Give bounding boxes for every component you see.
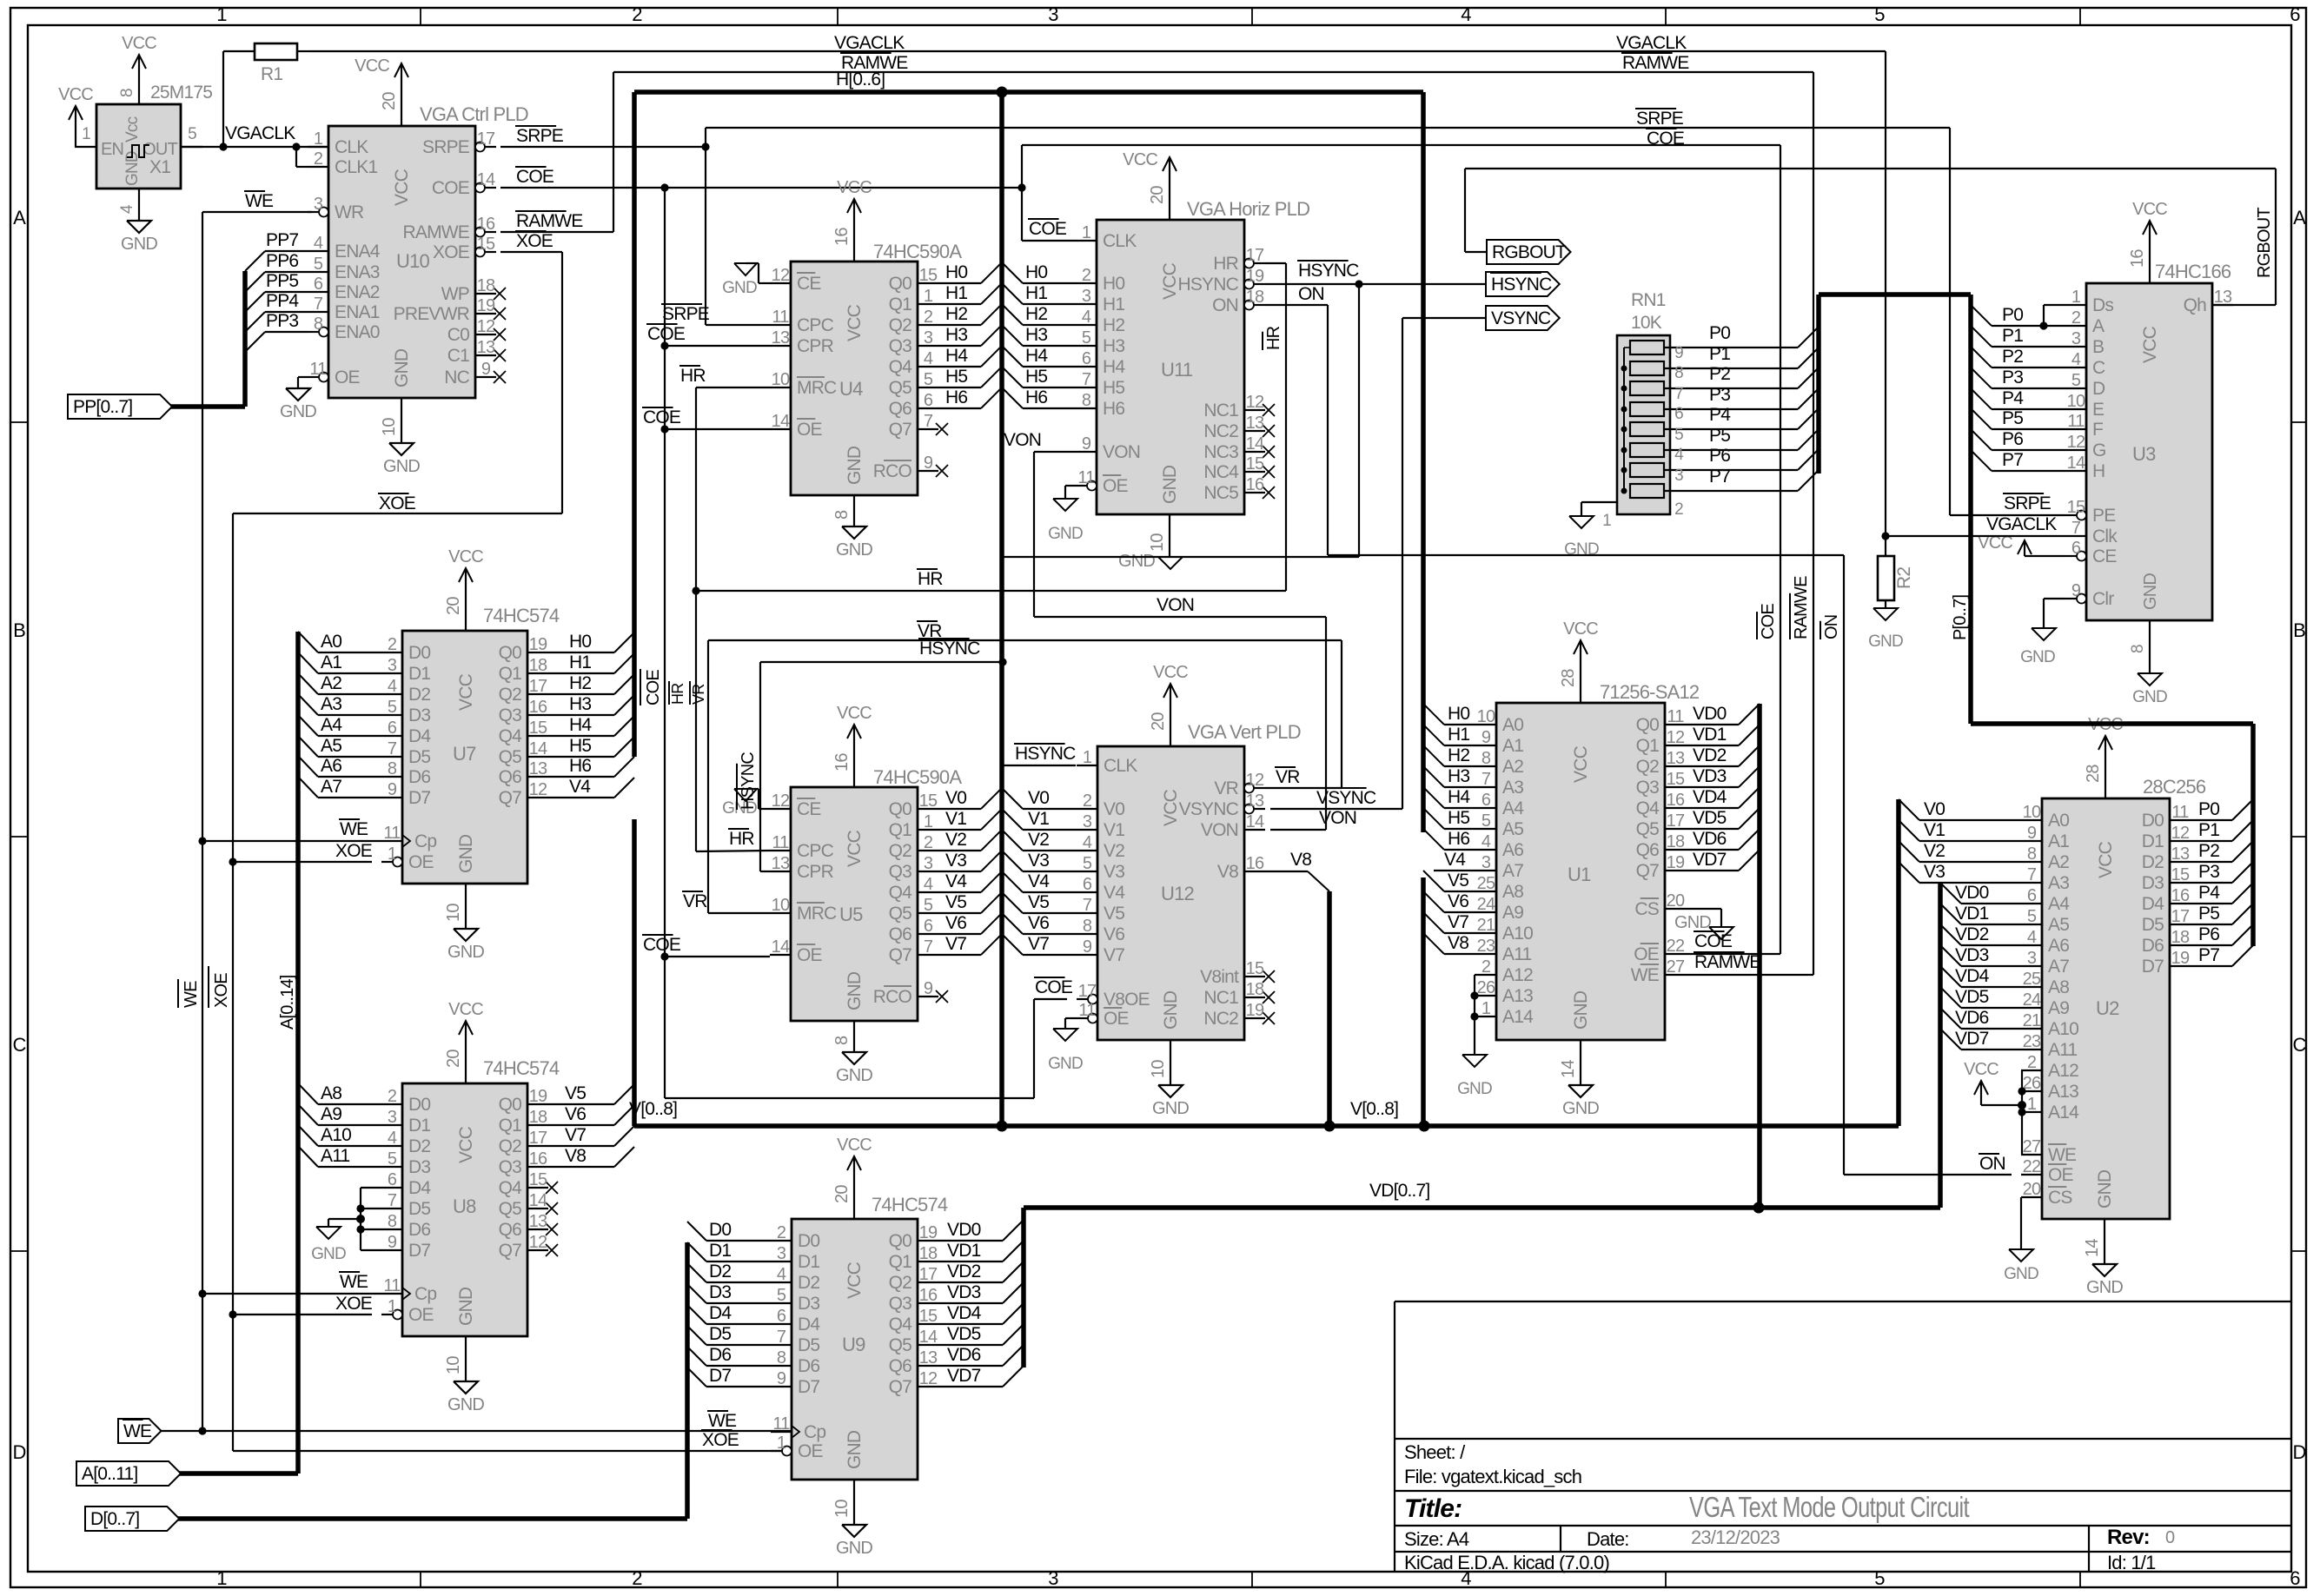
- svg-text:COE: COE: [1035, 977, 1073, 997]
- svg-text:Q2: Q2: [889, 1273, 912, 1293]
- svg-text:Q1: Q1: [889, 1252, 912, 1272]
- VON horizontal y710: [1034, 616, 1326, 618]
- svg-text:SRPE: SRPE: [422, 137, 470, 157]
- svg-text:2: 2: [777, 1223, 786, 1242]
- svg-text:17: 17: [477, 129, 495, 149]
- svg-text:P5: P5: [2198, 904, 2219, 924]
- svg-text:Q3: Q3: [499, 705, 522, 725]
- svg-text:8: 8: [777, 1348, 786, 1368]
- svg-text:25M175: 25M175: [150, 83, 212, 103]
- U3 GND pin 8 bottom: [2149, 620, 2151, 673]
- svg-text:74HC590A: 74HC590A: [873, 241, 962, 262]
- svg-text:ON: ON: [1212, 295, 1238, 315]
- svg-text:7: 7: [1082, 370, 1091, 389]
- svg-text:U10: U10: [396, 250, 430, 272]
- svg-text:D2: D2: [408, 1136, 430, 1156]
- svg-text:16: 16: [477, 215, 495, 234]
- svg-text:H1: H1: [569, 652, 591, 672]
- svg-text:XOE: XOE: [335, 1294, 373, 1314]
- svg-text:A11: A11: [2048, 1040, 2078, 1060]
- svg-text:V[0..8]: V[0..8]: [1350, 1099, 1398, 1119]
- svg-text:A2: A2: [321, 673, 341, 693]
- svg-text:D3: D3: [2142, 873, 2164, 893]
- svg-text:HSYNC: HSYNC: [739, 752, 758, 810]
- svg-text:V1: V1: [945, 809, 966, 829]
- COE vertical branch left side: [664, 188, 666, 1098]
- svg-text:4: 4: [2071, 350, 2081, 369]
- resistor network RN1 10K: [1617, 335, 1670, 514]
- svg-text:H4: H4: [1448, 787, 1470, 807]
- WE branch to U7 Cp: [202, 840, 381, 842]
- svg-text:CPR: CPR: [797, 862, 834, 882]
- svg-text:D7: D7: [408, 1241, 430, 1261]
- svg-text:Title:: Title:: [1404, 1494, 1462, 1523]
- svg-text:XOE: XOE: [433, 242, 470, 262]
- svg-text:CLK1: CLK1: [335, 157, 377, 177]
- svg-text:VD2: VD2: [947, 1262, 981, 1281]
- svg-text:V3: V3: [1924, 862, 1945, 882]
- svg-text:11: 11: [772, 833, 789, 852]
- svg-text:A13: A13: [2048, 1082, 2078, 1102]
- svg-text:25: 25: [1477, 874, 1495, 893]
- D bus entries to U9 inputs: [687, 1222, 706, 1241]
- svg-text:16: 16: [1246, 854, 1264, 873]
- svg-text:VD2: VD2: [1693, 745, 1727, 765]
- svg-text:Q3: Q3: [499, 1157, 522, 1177]
- svg-text:H0: H0: [569, 632, 591, 652]
- svg-text:V3: V3: [1028, 851, 1049, 871]
- svg-text:6: 6: [1083, 875, 1092, 894]
- IC U11 VGA Horiz PLD: [1097, 220, 1244, 514]
- svg-text:3: 3: [388, 1108, 397, 1127]
- svg-text:GND: GND: [456, 1287, 476, 1326]
- svg-text:D6: D6: [709, 1345, 731, 1365]
- svg-text:D0: D0: [709, 1220, 731, 1240]
- svg-text:2: 2: [632, 3, 642, 25]
- svg-text:3: 3: [1048, 1567, 1058, 1589]
- svg-text:P0: P0: [1709, 323, 1730, 343]
- svg-text:Size: A4: Size: A4: [1404, 1528, 1469, 1550]
- svg-text:U4: U4: [839, 378, 863, 400]
- svg-text:WE: WE: [245, 191, 274, 211]
- svg-text:HSYNC: HSYNC: [1015, 744, 1076, 764]
- svg-text:VD5: VD5: [1955, 987, 1989, 1007]
- svg-text:3: 3: [777, 1244, 786, 1263]
- D[0..7] horizontal bus to label: [162, 1516, 687, 1521]
- svg-text:D4: D4: [798, 1315, 820, 1334]
- svg-text:GND: GND: [1457, 1080, 1492, 1098]
- svg-text:VON: VON: [1201, 820, 1238, 840]
- svg-text:VCC: VCC: [58, 85, 93, 104]
- svg-text:V4: V4: [1444, 850, 1466, 870]
- svg-text:U2: U2: [2096, 997, 2119, 1019]
- svg-text:D1: D1: [408, 1116, 430, 1136]
- svg-text:5: 5: [1874, 3, 1885, 25]
- svg-text:17: 17: [2171, 907, 2190, 926]
- svg-text:RAMWE: RAMWE: [403, 222, 470, 242]
- row ticks left/right: [10, 421, 28, 423]
- svg-text:15: 15: [2171, 865, 2190, 884]
- svg-text:X1: X1: [149, 157, 170, 177]
- svg-text:B: B: [13, 619, 25, 641]
- svg-text:H0: H0: [1025, 262, 1047, 282]
- svg-text:RAMWE: RAMWE: [516, 211, 583, 231]
- svg-text:U3: U3: [2132, 443, 2156, 465]
- IC U7 74HC574: [402, 631, 527, 884]
- svg-text:A14: A14: [1502, 1007, 1534, 1027]
- svg-text:18: 18: [919, 1244, 938, 1263]
- svg-text:13: 13: [2171, 844, 2190, 864]
- svg-text:A0: A0: [1502, 715, 1523, 735]
- svg-text:17: 17: [529, 1129, 547, 1148]
- svg-text:16: 16: [2171, 886, 2190, 905]
- svg-text:P7: P7: [2002, 450, 2023, 470]
- svg-text:12: 12: [772, 791, 790, 811]
- svg-text:9: 9: [924, 454, 933, 473]
- svg-text:VR: VR: [1214, 778, 1238, 798]
- svg-text:VCC: VCC: [837, 704, 872, 723]
- svg-text:CLK: CLK: [1103, 231, 1137, 251]
- svg-text:7: 7: [1481, 770, 1491, 789]
- svg-text:A5: A5: [2048, 915, 2069, 935]
- bus vertical x1153: [999, 92, 1004, 1126]
- svg-text:1: 1: [924, 812, 933, 831]
- svg-text:H5: H5: [1025, 367, 1047, 387]
- svg-text:3: 3: [924, 854, 933, 873]
- svg-text:VON: VON: [1157, 595, 1194, 615]
- svg-text:RGBOUT: RGBOUT: [2255, 208, 2274, 278]
- svg-text:8: 8: [832, 1036, 852, 1045]
- svg-text:13: 13: [1246, 414, 1264, 433]
- svg-text:14: 14: [772, 412, 790, 431]
- U8 D4-D7 tied to ground: [361, 1187, 381, 1189]
- svg-text:A9: A9: [2048, 998, 2069, 1018]
- svg-text:V7: V7: [945, 934, 966, 954]
- svg-text:19: 19: [1246, 267, 1264, 286]
- svg-text:V6: V6: [1104, 924, 1124, 944]
- svg-text:V4: V4: [945, 871, 967, 891]
- U2 outputs P0-P7 entries into bus x2593: [2191, 819, 2232, 821]
- svg-text:H1: H1: [945, 283, 967, 303]
- svg-text:23/12/2023: 23/12/2023: [1691, 1526, 1780, 1548]
- svg-text:19: 19: [529, 1087, 547, 1106]
- svg-text:Q7: Q7: [499, 1241, 522, 1261]
- IC U10 VGA Ctrl PLD: [328, 126, 475, 398]
- svg-text:P[0..7]: P[0..7]: [1951, 595, 1970, 640]
- SRPE wire into U4 CPC: [706, 324, 770, 326]
- svg-text:Q4: Q4: [499, 726, 523, 746]
- svg-text:CLK: CLK: [1104, 756, 1137, 776]
- svg-text:P7: P7: [2198, 945, 2219, 965]
- svg-text:12: 12: [1667, 728, 1685, 747]
- U9 outputs VD0-VD7 wires entries into bus x1178: [938, 1240, 1003, 1242]
- svg-text:D2: D2: [408, 685, 430, 705]
- svg-text:F: F: [2092, 420, 2103, 440]
- svg-text:P0: P0: [2198, 799, 2219, 819]
- svg-text:VD7: VD7: [1955, 1029, 1989, 1049]
- svg-text:1: 1: [2071, 288, 2081, 307]
- svg-text:GND: GND: [845, 446, 865, 485]
- svg-text:18: 18: [1667, 832, 1685, 851]
- svg-text:File: vgatext.kicad_sch: File: vgatext.kicad_sch: [1404, 1466, 1581, 1487]
- svg-text:1: 1: [2027, 1095, 2037, 1114]
- svg-text:4: 4: [314, 234, 323, 253]
- svg-text:Ds: Ds: [2092, 295, 2113, 315]
- svg-text:V8: V8: [1290, 850, 1311, 870]
- svg-text:V0: V0: [1104, 799, 1124, 819]
- IC U8 74HC574: [402, 1083, 527, 1336]
- V bus vertical x2185: [1896, 799, 1901, 1126]
- svg-text:Q0: Q0: [889, 274, 912, 294]
- svg-text:D0: D0: [2142, 811, 2164, 831]
- svg-text:23: 23: [1477, 937, 1495, 956]
- RN1 pin1 to ground: [1581, 501, 1617, 503]
- svg-text:Q0: Q0: [1636, 715, 1660, 735]
- svg-text:A6: A6: [1502, 840, 1523, 860]
- COE branch to U4 OE: [665, 428, 770, 430]
- svg-text:Q5: Q5: [889, 904, 912, 924]
- svg-text:14: 14: [529, 1191, 547, 1210]
- bus vertical x730 upper: [632, 92, 637, 757]
- X1 pin 5 OUT: [181, 146, 202, 148]
- svg-text:19: 19: [1246, 1001, 1264, 1020]
- U1 CS to ground: [1686, 908, 1721, 910]
- svg-text:5: 5: [1874, 1567, 1885, 1589]
- X1 pin 1 VCC symbol: [75, 106, 76, 147]
- svg-text:9: 9: [2027, 824, 2037, 843]
- svg-text:D3: D3: [709, 1282, 731, 1302]
- svg-text:P2: P2: [2198, 841, 2219, 861]
- svg-text:V5: V5: [565, 1083, 586, 1103]
- svg-text:WE: WE: [182, 981, 201, 1008]
- svg-text:D5: D5: [2142, 915, 2164, 935]
- svg-text:9: 9: [1082, 434, 1091, 454]
- svg-text:10: 10: [2067, 392, 2085, 411]
- svg-text:D4: D4: [2142, 894, 2164, 914]
- svg-text:6: 6: [1481, 791, 1491, 810]
- svg-text:H5: H5: [569, 736, 591, 756]
- svg-text:7: 7: [314, 295, 323, 314]
- svg-text:P5: P5: [1709, 426, 1730, 446]
- svg-text:VD4: VD4: [1955, 966, 1990, 986]
- svg-text:WE: WE: [340, 1272, 368, 1292]
- svg-text:12: 12: [919, 1369, 938, 1388]
- svg-text:10: 10: [772, 896, 790, 915]
- svg-text:P7: P7: [1709, 467, 1730, 487]
- svg-text:V4: V4: [1104, 883, 1125, 903]
- svg-text:Q7: Q7: [499, 788, 522, 808]
- svg-text:GND: GND: [1674, 913, 1711, 932]
- IC U4 74HC590A: [791, 262, 918, 495]
- svg-text:11: 11: [2171, 803, 2189, 822]
- IC U1 71256-SA12: [1496, 703, 1665, 1040]
- svg-text:14: 14: [919, 1328, 938, 1347]
- svg-text:COE: COE: [647, 324, 686, 344]
- svg-text:COE: COE: [516, 167, 554, 187]
- svg-text:VD0: VD0: [1693, 704, 1727, 724]
- svg-text:12: 12: [529, 1233, 547, 1252]
- SRPE run: [500, 146, 706, 148]
- svg-text:P3: P3: [2198, 862, 2219, 882]
- svg-text:4: 4: [2027, 928, 2037, 947]
- svg-text:Q5: Q5: [889, 1335, 912, 1355]
- svg-text:V8OE: V8OE: [1104, 990, 1150, 1010]
- svg-text:H6: H6: [1448, 829, 1469, 849]
- svg-text:H6: H6: [569, 756, 591, 776]
- svg-text:VD1: VD1: [947, 1241, 981, 1261]
- svg-text:5: 5: [1674, 426, 1683, 444]
- svg-text:PREVWR: PREVWR: [394, 304, 470, 324]
- global label A[0..11]: [76, 1461, 181, 1486]
- svg-text:V8int: V8int: [1200, 967, 1239, 987]
- VGACLK top horizontal run: [309, 50, 1886, 52]
- svg-text:VR: VR: [683, 891, 707, 911]
- svg-text:7: 7: [2027, 865, 2037, 884]
- svg-text:VCC: VCC: [1160, 262, 1180, 300]
- global label PP[0..7]: [68, 394, 172, 419]
- svg-text:24: 24: [1477, 895, 1495, 914]
- svg-text:19: 19: [2171, 949, 2190, 968]
- svg-text:D7: D7: [798, 1377, 819, 1397]
- svg-text:VCC: VCC: [837, 1136, 872, 1155]
- svg-text:5: 5: [777, 1286, 786, 1305]
- svg-text:D0: D0: [408, 643, 430, 663]
- svg-text:H6: H6: [945, 387, 967, 407]
- svg-text:P2: P2: [2002, 347, 2023, 367]
- svg-text:11: 11: [2067, 412, 2085, 431]
- U3 CE tie to VCC: [2025, 555, 2065, 557]
- HR vertical x801: [695, 387, 697, 851]
- svg-text:11: 11: [383, 1276, 401, 1295]
- svg-text:VON: VON: [1004, 430, 1041, 450]
- svg-text:V3: V3: [1104, 862, 1124, 882]
- svg-text:11: 11: [309, 360, 327, 379]
- VSYNC net from U12 pin13: [1270, 808, 1402, 810]
- svg-text:A13: A13: [1502, 986, 1533, 1006]
- svg-text:18: 18: [477, 276, 495, 295]
- svg-text:8: 8: [388, 759, 397, 778]
- svg-text:WE: WE: [123, 1421, 152, 1441]
- svg-text:VD5: VD5: [947, 1324, 981, 1344]
- svg-text:18: 18: [529, 656, 547, 675]
- U12 V8 output wire diagonal into bus x1530: [1265, 871, 1308, 872]
- svg-text:6: 6: [2027, 886, 2037, 905]
- svg-text:14: 14: [1246, 812, 1264, 831]
- svg-text:V8: V8: [1217, 862, 1238, 882]
- svg-text:Q4: Q4: [1636, 798, 1660, 818]
- svg-text:GND: GND: [722, 279, 757, 297]
- svg-text:10: 10: [1477, 707, 1495, 726]
- svg-text:VD6: VD6: [947, 1345, 981, 1365]
- VD bus vertical x1178: [1021, 1208, 1026, 1368]
- svg-text:MRC: MRC: [797, 378, 837, 398]
- svg-text:3: 3: [1048, 3, 1058, 25]
- svg-text:VD4: VD4: [947, 1303, 982, 1323]
- VR net from U12 pin12: [1265, 787, 1342, 789]
- WE vertical from U10 WR: [202, 211, 312, 213]
- svg-text:V5: V5: [1448, 871, 1468, 891]
- svg-text:Date:: Date:: [1587, 1528, 1629, 1550]
- svg-text:13: 13: [477, 338, 495, 357]
- svg-text:XOE: XOE: [516, 231, 553, 251]
- VR vertical x815: [707, 640, 709, 913]
- svg-text:10K: 10K: [1631, 313, 1662, 333]
- ground at U10 OE pin: [298, 376, 308, 378]
- svg-text:C1: C1: [447, 346, 469, 366]
- svg-text:WE: WE: [340, 819, 368, 839]
- svg-text:VD7: VD7: [1693, 850, 1727, 870]
- svg-text:WR: WR: [335, 202, 364, 222]
- svg-text:Q5: Q5: [499, 747, 522, 767]
- U7 outputs H0-H6 V4 wires entries into bus x730: [548, 652, 614, 653]
- svg-text:P1: P1: [1709, 344, 1730, 364]
- svg-text:2: 2: [924, 308, 933, 327]
- WE global label bottom left: [118, 1419, 162, 1443]
- svg-text:V7: V7: [1448, 912, 1468, 932]
- resistor R1: [255, 43, 297, 60]
- svg-text:15: 15: [919, 266, 938, 285]
- svg-text:15: 15: [529, 1170, 547, 1189]
- bus H[0..6] horizontal top: [634, 89, 1423, 95]
- svg-text:CLK: CLK: [335, 137, 368, 157]
- svg-text:NC4: NC4: [1203, 462, 1239, 482]
- svg-text:U12: U12: [1161, 883, 1195, 904]
- svg-text:D6: D6: [408, 767, 430, 787]
- svg-text:Q6: Q6: [889, 399, 912, 419]
- svg-text:8: 8: [118, 89, 136, 97]
- svg-text:V7: V7: [1028, 934, 1049, 954]
- svg-text:MRC: MRC: [797, 904, 837, 924]
- svg-text:P6: P6: [2198, 924, 2219, 944]
- svg-text:GND: GND: [1118, 552, 1155, 571]
- svg-text:A[0..14]: A[0..14]: [278, 975, 297, 1030]
- bus V[0..8] horizontal: [634, 1123, 1899, 1129]
- U3 P0-P7 inputs entries from bus x2268: [1971, 305, 1992, 326]
- svg-text:19: 19: [529, 635, 547, 654]
- svg-text:Q1: Q1: [1636, 736, 1660, 756]
- svg-text:V1: V1: [1924, 820, 1945, 840]
- svg-text:5: 5: [924, 370, 933, 389]
- svg-text:A7: A7: [1502, 861, 1523, 881]
- svg-text:2: 2: [388, 635, 397, 654]
- svg-text:VCC: VCC: [456, 673, 476, 711]
- svg-text:GND: GND: [845, 971, 865, 1010]
- svg-text:1: 1: [1481, 999, 1491, 1018]
- svg-text:D1: D1: [709, 1241, 731, 1261]
- svg-text:VGACLK: VGACLK: [225, 123, 295, 143]
- svg-text:6: 6: [1082, 349, 1091, 368]
- svg-text:GND: GND: [2004, 1265, 2038, 1283]
- XOE run from U10: [500, 251, 562, 253]
- svg-text:74HC590A: 74HC590A: [873, 766, 962, 788]
- svg-text:H4: H4: [1025, 346, 1048, 366]
- svg-text:HR: HR: [680, 366, 706, 386]
- svg-text:V3: V3: [945, 851, 966, 871]
- title block: [1394, 1301, 1395, 1572]
- svg-text:Q0: Q0: [889, 799, 912, 819]
- A[0..11] horizontal bus to label: [162, 1471, 298, 1476]
- svg-text:GND: GND: [447, 1395, 484, 1414]
- svg-text:CS: CS: [1634, 899, 1659, 919]
- svg-text:3: 3: [2071, 329, 2081, 348]
- svg-text:XOE: XOE: [335, 841, 373, 861]
- svg-text:ENA3: ENA3: [335, 262, 380, 282]
- svg-text:9: 9: [388, 780, 397, 799]
- svg-text:H4: H4: [569, 715, 592, 735]
- svg-text:A6: A6: [2048, 936, 2069, 956]
- svg-text:5: 5: [924, 896, 933, 915]
- svg-text:D: D: [2092, 379, 2105, 399]
